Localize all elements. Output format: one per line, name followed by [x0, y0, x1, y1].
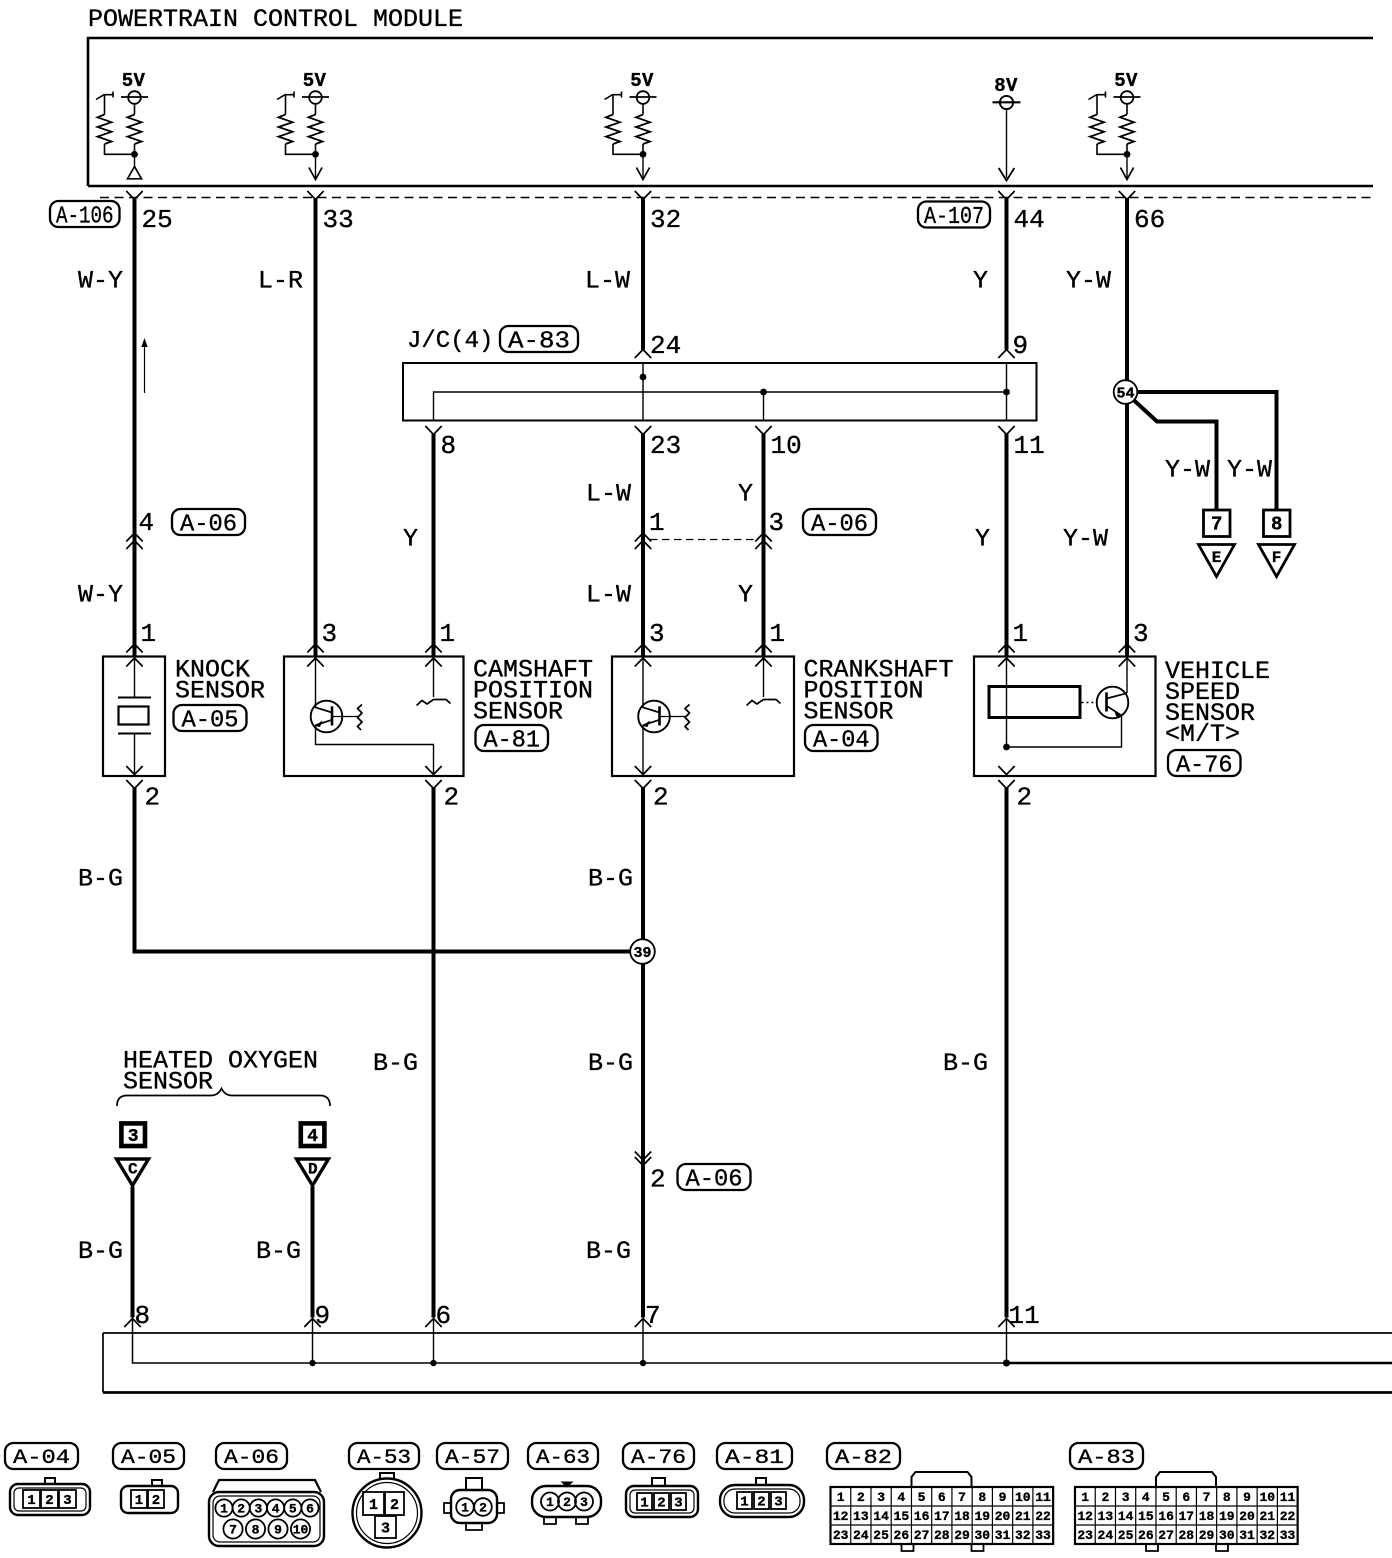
svg-text:28: 28	[934, 1528, 950, 1543]
svg-text:16: 16	[1158, 1509, 1174, 1524]
splice 39	[630, 939, 655, 964]
svg-text:W-Y: W-Y	[78, 581, 123, 610]
svg-text:1: 1	[461, 1501, 469, 1516]
piezo element crystal	[119, 707, 149, 725]
svg-text:11: 11	[1035, 1490, 1051, 1505]
svg-text:3: 3	[254, 1502, 262, 1517]
svg-text:B-G: B-G	[78, 865, 123, 894]
svg-text:A-06: A-06	[224, 1447, 279, 1470]
svg-text:11: 11	[1280, 1490, 1296, 1505]
J/C pin 9 entry chevron	[998, 350, 1014, 359]
svg-text:26: 26	[1138, 1528, 1154, 1543]
svg-text:B-G: B-G	[78, 1237, 123, 1266]
svg-text:L-W: L-W	[585, 267, 630, 296]
svg-text:9: 9	[1013, 331, 1029, 361]
VSS pin 1 wire through reed element	[1006, 657, 1008, 748]
brace over heated oxygen sensor terminals	[117, 1089, 330, 1107]
svg-text:18: 18	[954, 1509, 970, 1524]
svg-text:6: 6	[436, 1301, 452, 1331]
svg-text:10: 10	[293, 1523, 309, 1538]
svg-text:3: 3	[769, 508, 785, 538]
svg-text:10: 10	[771, 431, 802, 461]
pull-up resistor (right) at x=134.5	[134, 104, 136, 115]
svg-text:6: 6	[1182, 1490, 1190, 1505]
svg-text:B-G: B-G	[256, 1237, 301, 1266]
svg-text:9: 9	[315, 1301, 331, 1331]
svg-text:11: 11	[1009, 1301, 1040, 1331]
svg-text:15: 15	[894, 1509, 910, 1524]
svg-text:7: 7	[1203, 1490, 1211, 1505]
junction dot on wire 24	[640, 374, 647, 381]
joint connector J/C(4) A-83 box	[403, 363, 1037, 421]
splice 54	[1114, 380, 1138, 404]
vehicle speed sensor box A-76	[974, 657, 1156, 777]
svg-text:A-06: A-06	[686, 1167, 743, 1194]
terminal box 3 (heated oxygen sensor)	[121, 1123, 145, 1146]
connector icon A-81	[756, 1478, 766, 1485]
off-page triangle C	[117, 1159, 149, 1186]
svg-text:2: 2	[563, 1495, 571, 1510]
wire B-G from triangle C to ground bus pin 8	[131, 1187, 135, 1318]
VSS emitter wire to pin 2 junction	[1007, 716, 1122, 748]
junction dot	[312, 151, 319, 158]
svg-text:8: 8	[1223, 1490, 1231, 1505]
J/C exit pin 8 fork	[425, 426, 441, 435]
svg-text:3: 3	[580, 1495, 588, 1510]
second resistor (left) at x=1097	[1089, 95, 1106, 100]
svg-text:12: 12	[1077, 1509, 1093, 1524]
svg-text:3: 3	[1133, 619, 1149, 649]
svg-text:8: 8	[441, 431, 457, 461]
svg-text:32: 32	[1259, 1528, 1275, 1543]
svg-text:5V: 5V	[122, 70, 146, 92]
svg-text:25: 25	[873, 1528, 889, 1543]
svg-text:5: 5	[918, 1490, 926, 1505]
svg-text:8: 8	[978, 1490, 986, 1505]
PCM pin 32 connector fork	[635, 191, 651, 200]
svg-text:2: 2	[45, 1493, 53, 1509]
svg-text:3: 3	[322, 619, 338, 649]
svg-text:29: 29	[1199, 1528, 1215, 1543]
svg-text:33: 33	[1280, 1528, 1296, 1543]
J/C pin 24 entry chevron	[635, 350, 651, 359]
svg-text:66: 66	[1134, 205, 1165, 235]
svg-text:10: 10	[1015, 1490, 1031, 1505]
svg-text:B-G: B-G	[588, 865, 633, 894]
svg-text:7: 7	[645, 1301, 661, 1331]
svg-text:6: 6	[938, 1490, 946, 1505]
svg-text:A-53: A-53	[357, 1447, 411, 1470]
connector label A-06	[172, 509, 245, 535]
svg-text:44: 44	[1014, 205, 1045, 235]
wire B-G from knock sensor to splice 39	[135, 788, 631, 952]
svg-text:L-W: L-W	[586, 480, 631, 509]
svg-text:A-04: A-04	[813, 728, 870, 755]
connector label A-05	[174, 705, 247, 731]
connector label A-83 (bottom row)	[1070, 1443, 1143, 1469]
sensor connector entry chevrons	[635, 644, 651, 653]
junction dot in VSS	[1003, 744, 1010, 751]
svg-text:A-05: A-05	[182, 708, 239, 735]
ground bus box	[103, 1332, 1392, 1334]
svg-text:4: 4	[139, 508, 155, 538]
open arrow terminal (to other circuit)	[642, 158, 644, 178]
ground bus wire	[133, 1319, 1007, 1364]
svg-text:3: 3	[63, 1493, 71, 1509]
junction dot at pin 11 tap	[1003, 389, 1010, 396]
svg-text:5V: 5V	[1114, 70, 1138, 92]
svg-text:26: 26	[894, 1528, 910, 1543]
piezo element bottom plate	[118, 733, 151, 735]
connector label A-83	[500, 326, 578, 352]
svg-text:A-63: A-63	[536, 1447, 590, 1470]
svg-text:1: 1	[740, 1495, 748, 1511]
svg-text:L-R: L-R	[258, 267, 303, 296]
svg-text:19: 19	[1219, 1509, 1235, 1524]
J/C wire 9-11 through	[1006, 363, 1008, 421]
svg-text:2: 2	[390, 1497, 399, 1514]
svg-text:A-06: A-06	[811, 512, 868, 539]
wire 25 W-Y down to knock sensor	[133, 199, 137, 657]
svg-text:31: 31	[1239, 1528, 1255, 1543]
svg-text:2: 2	[1101, 1490, 1109, 1505]
svg-text:Y: Y	[975, 525, 990, 554]
camshaft position sensor box A-81	[284, 657, 464, 777]
wire Y from J/C 10 to crankshaft sensor pin 1	[762, 434, 766, 657]
svg-text:4: 4	[272, 1502, 280, 1517]
svg-text:7: 7	[229, 1523, 237, 1538]
svg-text:POWERTRAIN CONTROL MODULE: POWERTRAIN CONTROL MODULE	[88, 5, 463, 34]
junction dot	[640, 151, 647, 158]
svg-text:Y: Y	[973, 267, 988, 296]
svg-text:3: 3	[128, 1127, 139, 1147]
svg-text:3: 3	[877, 1490, 885, 1505]
svg-text:W-Y: W-Y	[78, 267, 123, 296]
branch wire from splice 54 to pin 8 (F)	[1127, 392, 1277, 510]
svg-text:3: 3	[381, 1520, 390, 1537]
connector icon A-06	[213, 1480, 321, 1492]
svg-text:31: 31	[995, 1528, 1011, 1543]
transistor in camshaft sensor	[311, 701, 343, 733]
svg-text:17: 17	[934, 1509, 950, 1524]
svg-text:1: 1	[27, 1493, 35, 1509]
svg-text:A-83: A-83	[508, 329, 570, 356]
svg-text:7: 7	[958, 1490, 966, 1505]
svg-text:E: E	[1212, 549, 1222, 567]
wire Y from J/C 11 to vehicle speed sensor pin 1	[1005, 434, 1009, 657]
svg-text:A-82: A-82	[835, 1447, 892, 1470]
VSS pin 3 wire	[1126, 657, 1128, 694]
svg-text:39: 39	[633, 945, 651, 962]
svg-text:24: 24	[1098, 1528, 1114, 1543]
svg-text:8V: 8V	[994, 75, 1018, 97]
crank sensor pin 1 wire with contact	[763, 657, 765, 698]
second resistor (left) at x=613	[605, 95, 622, 100]
in-line connector on wire 25 (A-06 pin 4)	[126, 533, 142, 542]
svg-text:Y: Y	[738, 581, 753, 610]
svg-text:25: 25	[142, 205, 173, 235]
sensor exit pin 2 chevrons	[998, 766, 1014, 775]
svg-text:2: 2	[657, 1496, 665, 1512]
svg-text:C: C	[128, 1161, 138, 1179]
PCM box (powertrain control module outline)	[88, 38, 1373, 186]
svg-text:27: 27	[1158, 1528, 1174, 1543]
svg-text:11: 11	[1014, 431, 1045, 461]
connector A-06 dashed tie line	[650, 539, 757, 541]
connector label A-06 (second)	[803, 509, 876, 535]
pull-up resistor (right) at x=1127	[1126, 104, 1128, 115]
svg-text:1: 1	[837, 1490, 845, 1505]
svg-text:2: 2	[653, 783, 669, 813]
svg-text:B-G: B-G	[943, 1049, 988, 1078]
svg-text:3: 3	[1122, 1490, 1130, 1505]
svg-text:3: 3	[774, 1495, 782, 1511]
junction dot at pin 10 tap	[760, 389, 767, 396]
svg-text:32: 32	[650, 205, 681, 235]
svg-text:2: 2	[757, 1495, 765, 1511]
sensor connector entry chevrons	[998, 644, 1014, 653]
svg-text:A-57: A-57	[445, 1447, 500, 1470]
svg-text:9: 9	[999, 1490, 1007, 1505]
svg-text:6: 6	[306, 1502, 314, 1517]
svg-text:1: 1	[220, 1502, 228, 1517]
connector label A-76 (bottom row)	[623, 1443, 694, 1469]
svg-text:21: 21	[1015, 1509, 1031, 1524]
svg-text:2: 2	[237, 1502, 245, 1517]
svg-text:23: 23	[833, 1528, 849, 1543]
svg-text:Y-W: Y-W	[1165, 456, 1210, 485]
wire B-G from triangle D to ground bus pin 9	[311, 1187, 315, 1318]
svg-text:2: 2	[152, 1493, 160, 1509]
connector icon A-05	[121, 1486, 178, 1513]
svg-text:8: 8	[135, 1301, 151, 1331]
svg-text:17: 17	[1179, 1509, 1195, 1524]
svg-text:9: 9	[1243, 1490, 1251, 1505]
connector icon A-53	[380, 1473, 394, 1479]
crank sensor emitter wire to pin 2	[642, 726, 644, 777]
connector label A-82 (bottom row)	[827, 1443, 900, 1469]
PCM pin 33 connector fork	[307, 191, 323, 200]
cam sensor internal wire from pin 3	[315, 657, 317, 708]
J/C exit pin 11 fork	[998, 426, 1014, 435]
svg-text:22: 22	[1035, 1509, 1051, 1524]
sensor connector entry chevrons	[126, 644, 142, 653]
svg-text:Y-W: Y-W	[1063, 525, 1108, 554]
wire 44 Y down to J/C pin 9	[1005, 199, 1009, 350]
svg-text:A-76: A-76	[631, 1447, 686, 1470]
svg-text:1: 1	[770, 619, 786, 649]
knock sensor internal wire bottom	[134, 734, 136, 777]
svg-text:A-76: A-76	[1176, 753, 1233, 780]
wire B-G from VSS down to ground bus pin 11	[1005, 788, 1009, 1318]
svg-text:SENSOR: SENSOR	[123, 1068, 213, 1097]
sensor exit pin 2 chevrons	[425, 766, 441, 775]
sensor exit pin 2 chevrons	[126, 766, 142, 775]
wire Y from J/C 8 to camshaft sensor pin 1	[432, 434, 436, 657]
wire 33 L-R down to camshaft sensor pin 3	[314, 199, 318, 657]
terminal box 7	[1204, 510, 1231, 537]
knock sensor box A-05	[103, 657, 165, 777]
crankshaft position sensor box A-04	[612, 657, 794, 777]
svg-text:30: 30	[1219, 1528, 1235, 1543]
junction dot	[1124, 151, 1131, 158]
svg-text:Y: Y	[403, 525, 418, 554]
pull-up resistor (right) at x=643	[642, 104, 644, 115]
svg-text:2: 2	[444, 783, 460, 813]
svg-text:D: D	[308, 1161, 318, 1179]
open arrow terminal (to other circuit)	[1126, 158, 1128, 178]
PCM pin 44 connector fork	[998, 191, 1014, 200]
svg-text:54: 54	[1116, 386, 1134, 403]
svg-text:5: 5	[289, 1502, 297, 1517]
connector label A-81	[476, 725, 549, 751]
knock sensor internal wire top	[134, 657, 136, 698]
svg-text:14: 14	[873, 1509, 889, 1524]
svg-text:1: 1	[649, 508, 665, 538]
svg-text:32: 32	[1015, 1528, 1031, 1543]
svg-text:1: 1	[440, 619, 456, 649]
ground bus entry chevrons and pin numbers	[124, 1319, 140, 1328]
wire B-G from camshaft sensor down to ground bus pin 6	[432, 788, 436, 1318]
svg-text:SENSOR: SENSOR	[473, 698, 563, 727]
svg-text:14: 14	[1118, 1509, 1134, 1524]
svg-text:Y: Y	[738, 480, 753, 509]
branch wire from splice 54 to pin 7 (E)	[1133, 399, 1217, 510]
svg-text:<M/T>: <M/T>	[1165, 720, 1240, 749]
svg-text:SENSOR: SENSOR	[175, 677, 265, 706]
svg-text:33: 33	[1035, 1528, 1051, 1543]
signal direction arrow	[144, 344, 146, 393]
wire 32 L-W down to J/C pin 24	[641, 199, 645, 350]
svg-text:21: 21	[1259, 1509, 1275, 1524]
connector face A-106/A-107 dashed line	[100, 197, 1373, 199]
svg-text:25: 25	[1118, 1528, 1134, 1543]
off-page triangle F	[1259, 545, 1295, 577]
pull-up resistor (right) at x=315.5	[315, 104, 317, 115]
svg-text:J/C(4): J/C(4)	[407, 328, 493, 355]
J/C drop to pin 10	[763, 392, 765, 421]
svg-text:15: 15	[1138, 1509, 1154, 1524]
sensor exit pin 2 chevrons	[635, 766, 651, 775]
reed switch element	[989, 687, 1080, 718]
transistor in VSS (mirrored)	[1097, 687, 1129, 719]
svg-text:12: 12	[833, 1509, 849, 1524]
junction dot	[131, 151, 138, 158]
wire L-W from J/C 23 to crankshaft sensor pin 3	[641, 434, 645, 657]
svg-text:B-G: B-G	[373, 1049, 418, 1078]
svg-text:3: 3	[649, 619, 665, 649]
svg-text:9: 9	[274, 1523, 282, 1538]
svg-text:23: 23	[650, 431, 681, 461]
svg-text:7: 7	[1211, 514, 1222, 536]
svg-text:5V: 5V	[303, 70, 327, 92]
PCM pin 25 connector fork	[126, 191, 142, 200]
svg-text:24: 24	[650, 331, 681, 361]
svg-text:SENSOR: SENSOR	[804, 698, 894, 727]
svg-text:24: 24	[853, 1528, 869, 1543]
svg-text:23: 23	[1077, 1528, 1093, 1543]
connector label A-76	[1168, 750, 1241, 776]
connector label A-05 (bottom row)	[113, 1443, 184, 1469]
connector icon A-57	[466, 1478, 482, 1490]
svg-text:F: F	[1272, 549, 1282, 567]
PCM pin 66 connector fork	[1119, 191, 1135, 200]
svg-text:1: 1	[546, 1495, 554, 1510]
second resistor (left) at x=104.5	[96, 95, 113, 100]
J/C wire 24-23 through	[642, 363, 644, 421]
svg-text:Y-W: Y-W	[1227, 456, 1272, 485]
wire 66 Y-W down to vehicle speed sensor pin 3	[1125, 199, 1129, 657]
sensor connector entry chevrons	[755, 644, 771, 653]
svg-text:2: 2	[1017, 783, 1033, 813]
connector label A-04	[805, 725, 878, 751]
svg-text:4: 4	[897, 1490, 905, 1505]
svg-text:A-81: A-81	[725, 1447, 784, 1470]
svg-text:A-106: A-106	[56, 204, 114, 231]
connector label A-63 (bottom row)	[528, 1443, 598, 1469]
connector icon A-83 grid	[1156, 1472, 1216, 1487]
connector icon A-63	[561, 1482, 574, 1488]
svg-text:1: 1	[640, 1496, 648, 1512]
svg-text:20: 20	[995, 1509, 1011, 1524]
svg-text:B-G: B-G	[586, 1237, 631, 1266]
connector icon A-76	[652, 1478, 665, 1486]
svg-text:1: 1	[1013, 619, 1029, 649]
off-page triangle E	[1199, 545, 1235, 577]
transistor in crankshaft sensor	[638, 701, 670, 733]
piezo element top plate	[118, 697, 151, 699]
sensor connector entry chevrons	[425, 644, 441, 653]
svg-text:28: 28	[1179, 1528, 1195, 1543]
sensor connector entry chevrons	[1119, 644, 1135, 653]
svg-text:A-04: A-04	[13, 1447, 70, 1470]
sensor connector entry chevrons	[307, 644, 323, 653]
svg-text:8: 8	[252, 1523, 260, 1538]
cam sensor pin 1 wire with contact	[433, 657, 435, 698]
svg-text:5V: 5V	[630, 70, 654, 92]
svg-text:30: 30	[974, 1528, 990, 1543]
in-line connector on wire 10 (A-06 pin 3)	[755, 533, 771, 542]
svg-text:29: 29	[954, 1528, 970, 1543]
in-line connector on crank ground wire (A-06 pin 2)	[635, 1152, 651, 1161]
open arrow terminal (to other circuit)	[315, 158, 317, 178]
J/C exit pin 23 fork	[635, 426, 651, 435]
connector label A-06 (third)	[678, 1164, 751, 1190]
cam sensor emitter wire to pin 2	[316, 726, 434, 777]
triangle terminal (to other circuit)	[134, 158, 136, 167]
svg-text:18: 18	[1199, 1509, 1215, 1524]
crank sensor internal wire from pin 3	[642, 657, 644, 708]
svg-text:1: 1	[135, 1493, 143, 1509]
svg-text:2: 2	[145, 783, 161, 813]
second resistor (left) at x=285.5	[277, 95, 294, 100]
svg-text:27: 27	[914, 1528, 930, 1543]
svg-text:13: 13	[853, 1509, 869, 1524]
connector label A-106	[50, 201, 120, 227]
svg-text:1: 1	[141, 619, 157, 649]
svg-text:20: 20	[1239, 1509, 1255, 1524]
connector label A-06 (bottom row)	[216, 1443, 287, 1469]
svg-text:A-05: A-05	[121, 1447, 176, 1470]
svg-text:2: 2	[479, 1501, 487, 1516]
svg-text:A-06: A-06	[180, 512, 237, 539]
svg-text:13: 13	[1098, 1509, 1114, 1524]
connector label A-81 (bottom row)	[717, 1443, 792, 1469]
svg-text:A-107: A-107	[924, 204, 984, 231]
connector label A-04 (bottom row)	[5, 1443, 78, 1469]
svg-text:4: 4	[1142, 1490, 1150, 1505]
svg-text:1: 1	[1081, 1490, 1089, 1505]
